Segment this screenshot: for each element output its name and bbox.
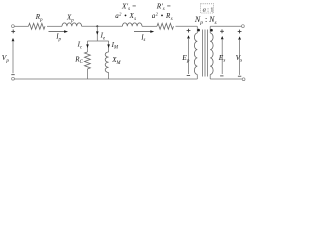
label a2 . Rs [152,11,173,22]
wire bottom rail primary [14,78,197,80]
label I_e [100,32,106,42]
node plus E_p [187,29,191,33]
current arrow I_p [49,30,69,33]
label X_M [111,56,121,66]
terminal top-right [242,25,245,28]
label E_p [181,53,190,64]
label X's = [121,1,137,12]
current arrow I_M [107,44,110,48]
svg-text:a : 1: a : 1 [203,7,214,14]
voltage arrow E_p [187,35,190,74]
node minus E_s [220,75,223,77]
wire X_M bottom [108,73,110,80]
label E_s [218,53,226,64]
wire shunt T-bar [88,40,109,42]
resistor a2 Rs [157,23,173,29]
label I_c [77,41,83,51]
wire secondary top rail [210,25,241,27]
node minus E_p [187,75,190,77]
current arrow I_c [86,44,89,48]
label I_p [55,33,61,43]
terminal bottom-right [242,78,245,81]
node plus V_p [11,30,15,34]
wire secondary bottom rail [210,78,242,80]
inductor X_p [62,23,82,26]
terminal top-left [12,25,15,28]
polarity dot secondary [210,29,213,32]
wire left shunt drop [87,41,89,52]
current arrow I_e [96,31,99,35]
wire coil to a2Rs [142,25,157,27]
ratio box a:1 [201,4,214,14]
wire shunt stem [96,26,98,41]
wire X_p to a2Xs coil [82,25,123,27]
resistor R_C (vertical) [85,52,91,69]
label R's = [156,1,172,12]
node plus E_s [220,29,224,33]
polarity dot primary [197,29,200,32]
label R_C [74,55,83,65]
inductor a2 Xs [122,23,142,26]
label R_p [35,13,43,23]
node plus V_s [238,30,242,34]
wire a2Rs to transformer [176,25,198,27]
voltage arrow V_p [12,38,15,73]
label a2 . Xs [115,11,136,22]
label N_p : N_s [194,15,217,26]
node minus V_s [238,75,241,77]
transformer primary winding [194,26,197,79]
voltage arrow V_s [238,36,241,75]
wire top rail left [14,25,28,27]
label I_s [140,33,145,43]
label V_s [236,53,243,64]
wire R_C bottom [86,69,88,79]
wire between R_p and X_p [47,25,62,27]
inductor X_M (vertical) [105,52,108,72]
junction node dot [96,25,98,27]
wire right shunt drop [108,41,110,52]
terminal bottom-left [12,77,15,80]
label I_M [111,41,119,51]
transformer secondary winding [210,26,213,79]
voltage arrow E_s [221,36,224,74]
resistor R_p [29,23,45,29]
label X_p [66,13,74,23]
current arrow I_s [134,30,154,33]
node minus V_p [11,74,14,76]
label V_p [2,53,10,64]
transformer core lines [203,30,208,77]
